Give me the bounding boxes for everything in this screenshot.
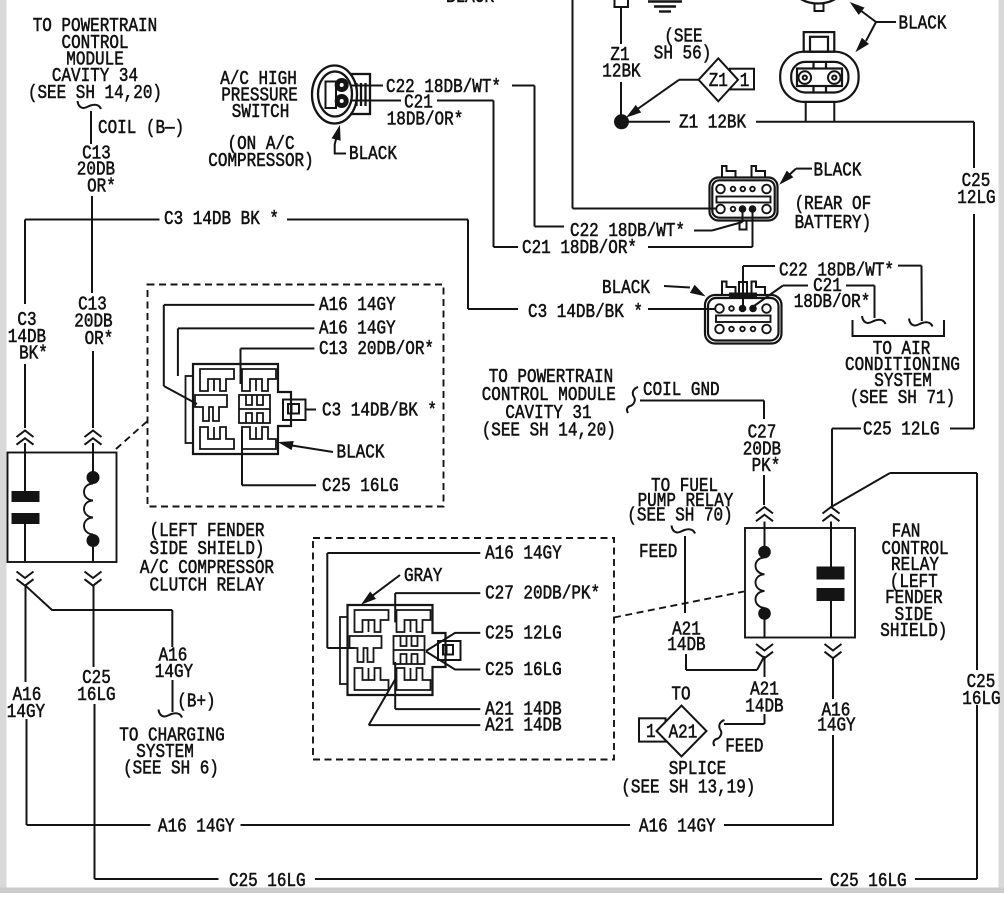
connector C2 top fill	[729, 293, 757, 298]
left scan edge	[0, 0, 7, 893]
svg-text:C3 14DB/BK *: C3 14DB/BK *	[322, 400, 437, 422]
svg-text:C25 16LG: C25 16LG	[830, 870, 907, 892]
svg-text:(SEE SH 14,20): (SEE SH 14,20)	[482, 420, 616, 442]
label BLACK (top right) with fork arrows	[851, 3, 947, 51]
svg-text:OR*: OR*	[85, 328, 114, 350]
svg-text:C25 12LG: C25 12LG	[485, 623, 562, 645]
wire A16 14GY (maze2)	[327, 553, 480, 648]
wire to battery connector C1	[573, 0, 717, 209]
svg-text:A16 14GY: A16 14GY	[319, 318, 396, 340]
svg-text:16LG: 16LG	[962, 688, 1000, 710]
wire C13 20DB/OR (maze1)	[241, 349, 315, 385]
label C3 14DB BK* (left column)	[8, 309, 48, 365]
svg-text:12BK: 12BK	[602, 61, 641, 83]
wire A16 14GY (maze1 pin 2)	[178, 328, 315, 376]
wire A21 14DB (below fan relay)	[764, 658, 766, 724]
svg-text:A21: A21	[669, 722, 698, 744]
label (LEFT FENDER SIDE SHIELD) A/C COMPRESSOR CLUTCH RELAY	[140, 520, 274, 597]
svg-text:1: 1	[646, 721, 656, 743]
connector symbols below clutch relay	[17, 572, 102, 586]
connector C1 pins	[716, 185, 771, 214]
wire C27 20DB/PK (maze2)	[395, 593, 480, 622]
wire A21 14DB (maze2 pin 1)	[395, 662, 480, 709]
svg-text:(SEE SH 14,20): (SEE SH 14,20)	[28, 82, 162, 104]
maze 2 right terminal box	[438, 641, 461, 660]
wire C22 18DB/WT	[350, 86, 743, 231]
label C21 18DB/OR* (top)	[387, 92, 464, 131]
fan relay coil terminals	[759, 546, 771, 619]
label TO AIR CONDITIONING SYSTEM (SEE SH 71)	[845, 338, 960, 409]
svg-text:TO: TO	[671, 684, 690, 706]
label C25 12LG (right top)	[957, 170, 995, 209]
label TO CHARGING SYSTEM (SEE SH 6)	[119, 725, 224, 780]
svg-text:(B+): (B+)	[177, 691, 215, 713]
wire C21 18DB/OR	[350, 101, 753, 248]
svg-text:C25 16LG: C25 16LG	[322, 475, 399, 497]
wire C22 18DB/WT (to C2)	[743, 266, 922, 321]
label C21 18DB/OR* (lower)	[794, 275, 871, 313]
svg-text:BLACK: BLACK	[602, 277, 650, 299]
wire from Z1 splice with arrow to junction	[628, 80, 699, 117]
svg-text:GRAY: GRAY	[404, 565, 443, 587]
svg-text:C21 18DB/OR*: C21 18DB/OR*	[522, 237, 637, 259]
svg-text:14GY: 14GY	[7, 701, 46, 723]
svg-text:C25 16LG: C25 16LG	[229, 870, 306, 892]
svg-text:BLACK: BLACK	[337, 442, 385, 464]
clutch relay coil	[84, 484, 93, 535]
label A16 14GY (left column)	[7, 684, 46, 723]
svg-text:C25 16LG: C25 16LG	[485, 659, 562, 681]
clutch relay contact wires	[24, 443, 26, 562]
label BLACK (A/C switch) with arrow	[332, 127, 397, 166]
label Z1 12BK (vertical wire)	[602, 44, 641, 83]
node: TO POWERTRAIN CONTROL MODULE CAVITY 34 label	[28, 15, 162, 104]
dashed detail box (fan relay connector)	[313, 538, 614, 760]
off-page symbol (B+)	[159, 710, 183, 718]
svg-text:A16 14GY: A16 14GY	[158, 816, 235, 838]
fan relay coil wires	[764, 522, 766, 638]
ground stub square (top)	[615, 0, 629, 7]
svg-text:A16 14GY: A16 14GY	[485, 543, 562, 565]
connector C1 wired pins (filled)	[739, 206, 756, 213]
label C25 16LG (right column)	[962, 671, 1000, 710]
battery connector (cut off, top)	[795, 0, 841, 11]
wire C25 16LG (right)	[832, 473, 977, 879]
connector symbols below fan relay	[756, 644, 842, 658]
label C13 20DB OR* (upper)	[77, 143, 116, 198]
svg-text:FEED: FEED	[725, 736, 763, 758]
wire Z1 12BK vertical	[620, 7, 622, 115]
label SPLICE (SEE SH 13,19)	[621, 758, 755, 799]
svg-text:C3 14DB/BK *: C3 14DB/BK *	[528, 301, 643, 323]
connector C2 body	[705, 282, 782, 344]
connector symbol on C3 wire	[17, 431, 34, 438]
wire C27 20DB/PK	[640, 401, 764, 506]
label A16 14GY (below fan relay)	[817, 700, 856, 737]
svg-text:COIL (B—): COIL (B—)	[98, 117, 184, 139]
wire C25 16LG (maze2)	[426, 652, 480, 670]
svg-text:A21 14DB: A21 14DB	[485, 715, 562, 737]
label A21 14DB (feed wire)	[667, 619, 705, 657]
clutch relay contact bars	[12, 492, 39, 502]
svg-text:16LG: 16LG	[77, 684, 115, 706]
A/C high pressure switch connector	[312, 66, 370, 124]
label GRAY with arrow	[363, 565, 443, 604]
right scan edge	[999, 0, 1004, 893]
ground symbol	[648, 2, 682, 12]
connector symbol on C13 wire	[85, 431, 102, 438]
svg-text:14DB: 14DB	[667, 634, 705, 656]
fan control relay box	[745, 528, 855, 638]
svg-text:CLUTCH RELAY: CLUTCH RELAY	[150, 575, 265, 597]
svg-text:BK*: BK*	[19, 343, 48, 365]
svg-text:FEED: FEED	[639, 541, 677, 563]
wire A16 14GY (left)	[26, 586, 834, 825]
svg-text:14GY: 14GY	[817, 715, 856, 737]
svg-text:(SEE SH 70): (SEE SH 70)	[627, 505, 732, 527]
wire A16 to charging system	[172, 680, 174, 712]
wire A21 14DB (feed)	[685, 536, 765, 670]
svg-text:12LG: 12LG	[957, 187, 995, 209]
svg-text:(SEE SH 6): (SEE SH 6)	[123, 758, 219, 780]
wire C13 20DB OR* (top)	[91, 111, 93, 428]
connector (rear of battery) body	[710, 166, 778, 230]
clutch relay connector maze	[186, 364, 292, 454]
battery connector pins	[799, 71, 841, 84]
wire A21 14DB (maze2 pin 2)	[369, 678, 481, 725]
wire C25 16LG (left/bottom)	[94, 586, 978, 879]
svg-text:COMPRESSOR): COMPRESSOR)	[208, 150, 313, 172]
svg-text:1: 1	[740, 70, 750, 92]
svg-text:18DB/OR*: 18DB/OR*	[387, 109, 464, 131]
fan relay contact bars	[817, 567, 844, 579]
svg-text:(SEE SH 13,19): (SEE SH 13,19)	[621, 777, 755, 799]
svg-text:A16 14GY: A16 14GY	[639, 816, 716, 838]
svg-text:18DB/OR*: 18DB/OR*	[794, 291, 871, 313]
bracket TO AIR CONDITIONING	[853, 320, 945, 336]
svg-text:BLACK: BLACK	[814, 160, 862, 182]
wire C21 18DB/OR (to C2)	[754, 286, 875, 319]
svg-text:BLACK: BLACK	[899, 13, 947, 35]
label A/C HIGH PRESSURE SWITCH	[208, 68, 313, 172]
A/C compressor clutch relay box	[8, 453, 117, 563]
off-page symbol C21 to A/C system	[862, 316, 886, 324]
connector symbols above fan relay	[823, 507, 840, 514]
svg-text:SH 56): SH 56)	[654, 43, 712, 65]
wire FEED to A21 splice	[724, 714, 765, 724]
svg-text:14GY: 14GY	[155, 661, 194, 683]
brace at FEED (splice)	[713, 720, 724, 746]
label A21 14DB (below fan relay)	[745, 679, 783, 718]
wire C25 12LG (maze2)	[426, 633, 480, 651]
svg-text:(SEE SH 71): (SEE SH 71)	[850, 387, 955, 409]
wire C3 14DB/BK (maze1)	[306, 409, 317, 411]
fan relay coil	[756, 558, 765, 608]
svg-text:Z1: Z1	[709, 70, 728, 92]
svg-text:BLACK: BLACK	[349, 143, 397, 165]
clutch relay coil wires	[92, 443, 94, 562]
label BLACK (maze1) with arrow	[280, 442, 385, 464]
label C25 16LG (left column)	[77, 667, 115, 706]
bottom scan edge	[0, 888, 1004, 894]
switch pins	[335, 79, 348, 108]
junction dot Z1	[615, 115, 629, 129]
splice symbol Z1 diamond	[699, 58, 754, 101]
svg-text:OR*: OR*	[87, 176, 116, 198]
connector C2 wired pins (filled)	[739, 305, 756, 312]
wire C25 12LG (to fan relay)	[832, 429, 974, 507]
off-page symbol FEED (fuel pump)	[672, 526, 696, 534]
svg-text:PK*: PK*	[752, 455, 781, 477]
clutch relay coil terminals	[87, 472, 99, 547]
splice symbol A21 diamond	[639, 706, 707, 757]
label BLACK (connector C2) with arrow	[602, 277, 704, 299]
wire A16 14GY (maze1 pin 1)	[164, 305, 315, 404]
off-page symbol at COIL (B-)	[78, 101, 102, 109]
wire C3 14DB BK	[25, 220, 715, 429]
dashed leader to clutch relay	[116, 421, 148, 449]
label C13 20DB OR* (lower)	[74, 294, 113, 351]
label (SEE SH 56)	[654, 26, 712, 65]
svg-text:SHIELD): SHIELD)	[880, 620, 947, 642]
svg-text:14DB: 14DB	[745, 696, 783, 718]
dashed detail box (clutch relay connector)	[148, 285, 444, 507]
connector C2 pins	[715, 304, 771, 333]
svg-text:BLACK: BLACK	[446, 0, 494, 8]
maze 1 right terminal box	[283, 400, 306, 421]
label FAN CONTROL RELAY (LEFT FENDER SIDE SHIELD)	[880, 521, 948, 643]
svg-text:Z1 12BK: Z1 12BK	[679, 112, 747, 134]
label BLACK (rear of battery) with arrow	[781, 160, 862, 184]
label (REAR OF BATTERY)	[795, 193, 872, 234]
label TO POWERTRAIN CONTROL MODULE CAVITY 31	[482, 366, 616, 442]
dashed leader to fan relay	[614, 592, 744, 618]
off-page symbol C22 to A/C system	[909, 319, 933, 327]
brace at COIL GND	[627, 387, 638, 413]
svg-text:A16 14GY: A16 14GY	[319, 294, 396, 316]
svg-text:COIL GND: COIL GND	[643, 379, 720, 401]
svg-text:C3 14DB BK *: C3 14DB BK *	[164, 208, 279, 230]
wire C25 16LG (maze1)	[242, 430, 316, 485]
battery connector pin wires	[806, 102, 835, 122]
svg-text:C25 12LG: C25 12LG	[863, 419, 940, 441]
label A16 14GY (charging branch)	[155, 645, 194, 684]
fan relay connector maze	[340, 605, 446, 695]
label C27 20DB PK*	[743, 422, 781, 478]
svg-text:C27 20DB/PK*: C27 20DB/PK*	[485, 583, 600, 605]
battery connector (oval)	[780, 32, 858, 102]
svg-text:BATTERY): BATTERY)	[795, 212, 872, 234]
wire A16 14GY (below fan relay)	[832, 658, 834, 825]
connector symbol on C27 wire	[756, 507, 773, 514]
label TO FUEL PUMP RELAY (SEE SH 70)	[627, 475, 734, 527]
fan relay contact wires	[830, 522, 832, 638]
svg-text:C13 20DB/OR*: C13 20DB/OR*	[319, 338, 434, 360]
wire Z1 12BK horizontal	[629, 122, 975, 429]
svg-text:SWITCH: SWITCH	[232, 101, 289, 123]
